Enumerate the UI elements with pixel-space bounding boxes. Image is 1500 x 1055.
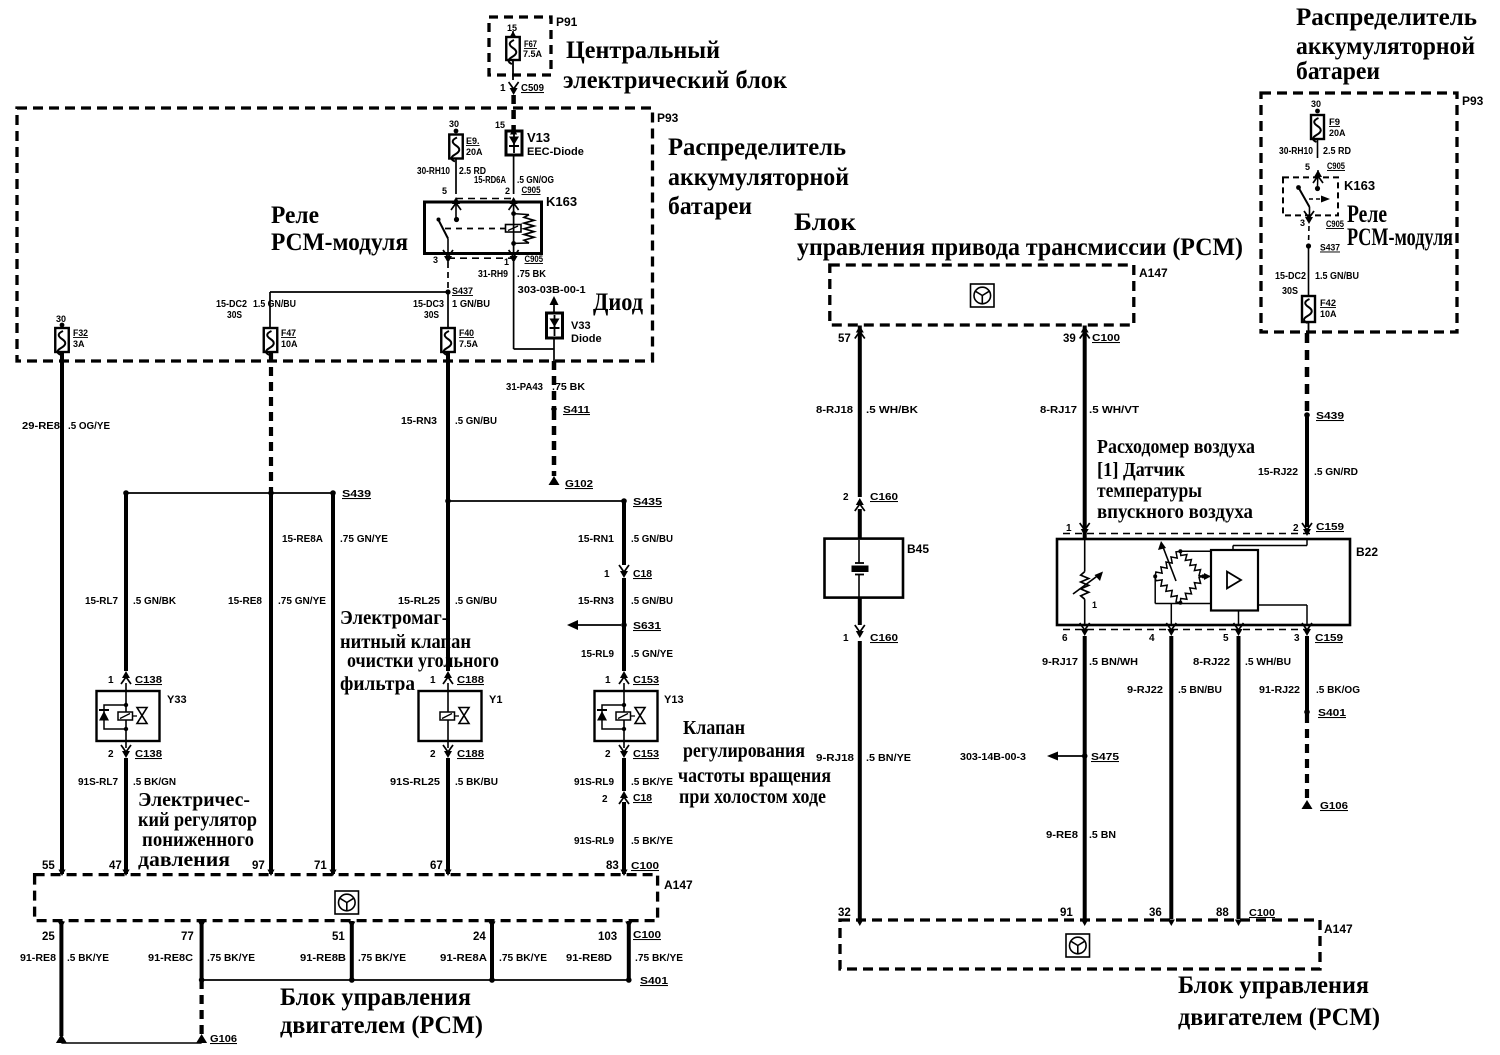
wire label 15-DC3 30S 1 GN/BU xyxy=(413,299,490,321)
splice S437 (right) xyxy=(1306,243,1340,254)
svg-text:G106: G106 xyxy=(210,1033,237,1045)
wire 91S-RL7 (Y33 to pin47) xyxy=(78,758,176,874)
wire F42 to S439 (thick dashed) xyxy=(1305,333,1310,413)
B22 wire amp to pin3 xyxy=(1258,605,1307,625)
pin 57 connector xyxy=(838,326,865,346)
svg-text:фильтра: фильтра xyxy=(340,673,415,695)
fuse F67 7.5A xyxy=(506,37,542,64)
svg-text:.75 BK: .75 BK xyxy=(517,269,547,280)
pin 83 connector C100 xyxy=(606,860,659,876)
relay switch blade xyxy=(437,218,449,239)
svg-text:Расходомер воздуха: Расходомер воздуха xyxy=(1097,436,1255,458)
fuse F40 7.5A xyxy=(441,328,478,355)
relay K163 (left) box xyxy=(425,194,578,254)
svg-text:P93: P93 xyxy=(1462,94,1484,108)
splice S439 line xyxy=(123,488,371,500)
svg-text:30: 30 xyxy=(449,119,459,129)
svg-text:S435: S435 xyxy=(633,496,662,508)
B22 wire bridge top to amp xyxy=(1180,550,1211,552)
reference 303-03B-00-1 xyxy=(518,285,586,296)
svg-text:30-RH10: 30-RH10 xyxy=(417,166,450,177)
svg-text:67: 67 xyxy=(430,860,443,872)
svg-text:B22: B22 xyxy=(1356,545,1378,559)
pin 55 xyxy=(42,860,66,876)
pin 1 (B22) xyxy=(1066,523,1090,536)
pin 4 connector xyxy=(1149,623,1176,644)
splice S401 (right) xyxy=(1304,707,1346,719)
svg-text:15-RL25: 15-RL25 xyxy=(398,596,440,607)
ground G106 (left) xyxy=(56,1033,237,1045)
svg-text:.5 WH/BK: .5 WH/BK xyxy=(866,405,919,416)
wire F67 to C509 xyxy=(512,60,514,80)
B22 bridge (bottom-left edge) xyxy=(1155,576,1180,602)
svg-text:C905: C905 xyxy=(1327,161,1346,172)
svg-text:.5 GN/BU: .5 GN/BU xyxy=(455,596,497,607)
svg-text:F67: F67 xyxy=(524,39,537,49)
wire to F47 xyxy=(269,292,271,328)
svg-text:S439: S439 xyxy=(342,488,371,500)
pin 25 xyxy=(42,922,65,944)
wire 15-RJ22 (S439 to C159) xyxy=(1258,415,1358,527)
wire B45 to C160 lower xyxy=(858,598,862,625)
svg-text:.5 BN/YE: .5 BN/YE xyxy=(866,753,911,764)
wire pin2-pin1 through relay xyxy=(513,202,515,253)
svg-text:88: 88 xyxy=(1216,907,1229,919)
relay coil xyxy=(511,211,534,246)
svg-text:1 GN/BU: 1 GN/BU xyxy=(452,299,490,310)
svg-text:.75 BK/YE: .75 BK/YE xyxy=(207,953,255,964)
svg-text:91-RE8: 91-RE8 xyxy=(20,953,56,964)
svg-text:Электромаг-: Электромаг- xyxy=(340,607,448,629)
pin 5 connector xyxy=(442,186,461,210)
svg-text:1: 1 xyxy=(108,675,114,686)
svg-text:30S: 30S xyxy=(1282,286,1298,297)
svg-text:29-RE8: 29-RE8 xyxy=(22,421,60,432)
wire E9 to relay pin5 xyxy=(455,159,457,195)
PCM module A147 (left) box xyxy=(35,875,693,921)
svg-text:36: 36 xyxy=(1149,907,1162,919)
pin 51 xyxy=(332,922,355,944)
svg-text:Распределитель: Распределитель xyxy=(1296,4,1477,31)
relay blade to pin3 xyxy=(447,239,449,254)
node 30 (E9 pin) xyxy=(449,119,459,133)
svg-text:A147: A147 xyxy=(1139,266,1168,280)
svg-text:8-RJ17: 8-RJ17 xyxy=(1040,405,1077,416)
svg-text:A147: A147 xyxy=(1324,922,1353,936)
svg-text:91-RE8D: 91-RE8D xyxy=(566,953,612,964)
svg-text:.5 BN/WH: .5 BN/WH xyxy=(1089,657,1138,668)
wire V33 to S411 (thick dashed) xyxy=(506,361,586,407)
svg-text:5: 5 xyxy=(442,186,447,196)
node 15 (P91 fuse pin) xyxy=(507,23,517,33)
title: battery distributor (left) xyxy=(668,134,849,220)
svg-text:15-RJ22: 15-RJ22 xyxy=(1258,467,1298,478)
svg-text:.75 BK: .75 BK xyxy=(552,382,586,393)
svg-text:57: 57 xyxy=(838,333,851,345)
svg-text:РСМ-модуля: РСМ-модуля xyxy=(271,229,408,256)
svg-text:S437: S437 xyxy=(1320,243,1340,254)
node 30 (F9 pin) xyxy=(1311,99,1321,113)
svg-text:77: 77 xyxy=(181,931,194,943)
svg-text:15-DC3: 15-DC3 xyxy=(413,299,444,310)
svg-text:51: 51 xyxy=(332,931,345,943)
svg-text:91-RE8A: 91-RE8A xyxy=(440,953,487,964)
svg-text:C153: C153 xyxy=(633,674,659,686)
connector C153 pin1 xyxy=(605,671,659,692)
wire label 15-DC2 30S 1.5 GN/BU xyxy=(216,299,296,321)
wire 15-RL9 (S631 to Y13) xyxy=(581,625,673,671)
svg-text:.5 BK/BU: .5 BK/BU xyxy=(455,777,498,788)
fuse F9 20A xyxy=(1311,115,1346,142)
wire 15-RL7 (S439 to Y33) xyxy=(85,493,177,671)
svg-text:C159: C159 xyxy=(1315,632,1343,644)
svg-text:2: 2 xyxy=(108,749,114,760)
wire label 30-RH10 2.5 RD xyxy=(417,166,486,177)
svg-text:2.5 RD: 2.5 RD xyxy=(1323,146,1351,157)
svg-text:32: 32 xyxy=(838,907,851,919)
svg-text:30: 30 xyxy=(56,314,66,324)
title: Diode xyxy=(593,289,643,316)
svg-text:.5 BK/YE: .5 BK/YE xyxy=(631,836,673,847)
pin 32 xyxy=(838,907,863,926)
svg-text:1: 1 xyxy=(605,675,611,686)
title: Central electric block xyxy=(563,37,788,94)
relay K163 (right) box xyxy=(1283,177,1375,215)
svg-text:F47: F47 xyxy=(281,328,296,338)
splice S439 (right) xyxy=(1304,410,1344,422)
svg-text:3: 3 xyxy=(1300,218,1305,228)
svg-text:103: 103 xyxy=(598,931,617,943)
PCM icon (bottom right) xyxy=(1066,934,1090,957)
svg-text:S401: S401 xyxy=(640,975,668,987)
svg-text:батареи: батареи xyxy=(668,193,752,220)
title: canister purge solenoid xyxy=(340,607,499,695)
svg-text:1: 1 xyxy=(843,633,849,644)
svg-text:аккумуляторной: аккумуляторной xyxy=(668,164,849,191)
svg-text:C905: C905 xyxy=(525,254,544,265)
svg-text:C160: C160 xyxy=(870,491,898,503)
B22 wire pin1 to varistor xyxy=(1084,539,1086,572)
B22 wire varistor to pin6 xyxy=(1084,599,1086,625)
svg-text:8-RJ18: 8-RJ18 xyxy=(816,405,853,416)
wire label 15-DC2 1.5 GN/BU (right) xyxy=(1275,271,1359,297)
svg-text:30S: 30S xyxy=(424,310,439,321)
svg-text:C100: C100 xyxy=(1092,332,1120,344)
pin 67 xyxy=(430,860,452,876)
svg-text:F40: F40 xyxy=(459,328,474,338)
svg-text:2: 2 xyxy=(430,749,436,760)
connector C509 xyxy=(500,82,544,95)
svg-text:.5 BN/BU: .5 BN/BU xyxy=(1178,685,1222,696)
svg-text:15-RL7: 15-RL7 xyxy=(85,596,118,607)
connector C905 pin3 (right) xyxy=(1300,211,1345,230)
label 15 (V13 pin) xyxy=(495,120,505,130)
pin 71 xyxy=(314,860,337,876)
svg-text:C160: C160 xyxy=(870,632,898,644)
fuse F32 3A xyxy=(55,328,88,355)
svg-text:15-DC2: 15-DC2 xyxy=(1275,271,1306,282)
pin 47 xyxy=(109,860,130,876)
pin 97 xyxy=(252,860,275,876)
svg-text:9-RJ22: 9-RJ22 xyxy=(1127,685,1163,696)
wire label 31-RH9 .75 BK xyxy=(478,269,547,280)
wire 91S-RL9 above C18 xyxy=(574,758,673,791)
svg-text:15-RE8: 15-RE8 xyxy=(228,596,262,607)
svg-text:РСМ-модуля: РСМ-модуля xyxy=(1347,224,1453,251)
wire 91-RJ22 (pin3 to S401) xyxy=(1259,636,1360,711)
PCM icon (left) xyxy=(335,891,359,914)
connector C153 pin2 xyxy=(605,740,659,760)
svg-text:15-RE8A: 15-RE8A xyxy=(282,534,323,545)
svg-text:15-DC2: 15-DC2 xyxy=(216,299,247,310)
svg-text:1.5 GN/BU: 1.5 GN/BU xyxy=(1315,271,1359,282)
connector C18 (upper) xyxy=(604,565,652,580)
relay contact dot xyxy=(454,217,459,222)
svg-text:при холостом ходе: при холостом ходе xyxy=(679,786,826,808)
pin 39 connector C100 xyxy=(1063,326,1120,346)
wire F47 to S439 (thick dashed) xyxy=(269,352,273,493)
B22 bridge (bottom-right edge) xyxy=(1180,576,1203,602)
wire relay pin1 to V33 xyxy=(514,262,554,349)
svg-text:5: 5 xyxy=(1305,162,1310,172)
svg-text:F42: F42 xyxy=(1320,298,1336,308)
svg-text:47: 47 xyxy=(109,860,122,872)
diode V33 xyxy=(547,313,602,345)
svg-text:.5 BK/YE: .5 BK/YE xyxy=(631,777,673,788)
wire 29-RE8 (F32 to pin55) xyxy=(22,352,110,874)
svg-text:очистки угольного: очистки угольного xyxy=(347,650,499,672)
svg-text:[1] Датчик: [1] Датчик xyxy=(1097,459,1185,481)
wire 9-RJ18 (C160 to pin32) xyxy=(816,641,911,919)
B22 wire pin2 to amp top xyxy=(1233,539,1307,550)
svg-text:P93: P93 xyxy=(657,111,679,125)
svg-text:Y1: Y1 xyxy=(489,694,502,706)
svg-text:C188: C188 xyxy=(457,674,484,686)
relay coil core xyxy=(506,225,522,233)
svg-text:.5 BK/GN: .5 BK/GN xyxy=(133,777,176,788)
wire S401 to G106 (thick dashed) xyxy=(200,980,204,1034)
node 30 (F32 pin) xyxy=(56,314,66,327)
svg-text:Центральный: Центральный xyxy=(566,37,720,64)
B22 wire bridge left to bottom link xyxy=(1155,576,1211,603)
svg-text:1.5 GN/BU: 1.5 GN/BU xyxy=(253,299,296,310)
svg-text:30: 30 xyxy=(1311,99,1321,109)
wire 9-RJ17 (pin6 down) xyxy=(1042,636,1138,919)
svg-text:S475: S475 xyxy=(1091,751,1119,763)
svg-text:.75 BK/YE: .75 BK/YE xyxy=(499,953,547,964)
svg-text:9-RJ17: 9-RJ17 xyxy=(1042,657,1078,668)
pin 88 connector C100 xyxy=(1216,907,1275,926)
connector line C159 bottom xyxy=(1063,629,1311,631)
pin 103 connector C100 xyxy=(598,922,661,944)
svg-text:15-RN3: 15-RN3 xyxy=(401,416,437,427)
relay dashed arrow (right) xyxy=(1309,196,1330,203)
B22 bridge (top-right edge) xyxy=(1180,551,1203,576)
title: idle speed control valve xyxy=(678,717,831,808)
svg-text:6: 6 xyxy=(1062,633,1068,644)
svg-text:15-RN1: 15-RN1 xyxy=(578,534,614,545)
B45 sensor element xyxy=(852,540,869,597)
svg-text:C159: C159 xyxy=(1316,521,1344,533)
PCM icon (top right) xyxy=(971,284,995,307)
svg-text:91S-RL9: 91S-RL9 xyxy=(574,836,614,847)
svg-text:.5 GN/BK: .5 GN/BK xyxy=(133,596,177,607)
B22 wire bridge to amp xyxy=(1203,573,1211,580)
title: battery distributor (right) xyxy=(1296,4,1477,85)
connector line C159 top xyxy=(1063,533,1311,535)
svg-text:C905: C905 xyxy=(522,185,542,196)
wire V33 to box edge xyxy=(553,349,555,361)
wire S411 to G102 xyxy=(552,411,557,476)
pin 3 connector xyxy=(433,250,453,265)
svg-text:A147: A147 xyxy=(664,878,693,892)
svg-text:управления привода трансмиссии: управления привода трансмиссии (РСМ) xyxy=(797,234,1243,261)
svg-text:Блок: Блок xyxy=(794,209,857,236)
svg-text:EEC-Diode: EEC-Diode xyxy=(527,146,584,158)
title: engine control block PCM (left) xyxy=(280,984,483,1039)
svg-text:K163: K163 xyxy=(1344,178,1375,193)
svg-text:20A: 20A xyxy=(1329,128,1346,138)
wire 8-RJ22 (pin5 to pin88) xyxy=(1193,636,1291,919)
svg-text:15-RN3: 15-RN3 xyxy=(578,596,614,607)
svg-text:31-PA43: 31-PA43 xyxy=(506,382,543,393)
svg-text:C18: C18 xyxy=(633,568,652,580)
svg-text:15: 15 xyxy=(507,23,517,33)
arrow to 303-03B-00-1 xyxy=(550,296,559,313)
fuse F47 10A xyxy=(264,328,298,355)
PCM module A147 (top right) box xyxy=(830,265,1168,325)
svg-text:3: 3 xyxy=(1294,633,1300,644)
svg-text:39: 39 xyxy=(1063,333,1076,345)
svg-text:2: 2 xyxy=(505,186,510,196)
svg-text:S439: S439 xyxy=(1316,410,1344,422)
svg-text:впускного воздуха: впускного воздуха xyxy=(1097,501,1253,523)
connector C18 (lower) xyxy=(602,791,652,805)
svg-text:F9: F9 xyxy=(1329,117,1340,127)
wire relay pin3 to S437 (dashed) xyxy=(447,262,449,292)
wire C160 to B45 xyxy=(858,509,862,539)
svg-text:4: 4 xyxy=(1149,633,1155,644)
svg-text:Y13: Y13 xyxy=(664,694,684,706)
svg-text:G106: G106 xyxy=(1320,800,1348,812)
svg-text:7.5A: 7.5A xyxy=(459,339,479,349)
wire pin3 to S437 (right) xyxy=(1308,226,1311,244)
svg-text:55: 55 xyxy=(42,860,55,872)
svg-text:C100: C100 xyxy=(633,929,661,941)
wire 8-RJ17 (pin39 to B22) xyxy=(1040,326,1139,539)
svg-text:аккумуляторной: аккумуляторной xyxy=(1296,33,1475,60)
wire 91-RE8 (pin25 to G106) xyxy=(20,921,109,1036)
svg-text:3A: 3A xyxy=(73,339,85,349)
relay actuation dashed link xyxy=(445,228,505,230)
svg-text:2: 2 xyxy=(602,794,608,805)
pin 2 connector C159 (top) xyxy=(1293,521,1344,536)
svg-text:7.5A: 7.5A xyxy=(523,49,543,59)
wire label 9-RE8 .5 BN xyxy=(1046,830,1116,841)
svg-text:1: 1 xyxy=(1066,523,1072,534)
ground G102 xyxy=(549,476,594,490)
svg-text:30S: 30S xyxy=(227,310,242,321)
svg-text:C100: C100 xyxy=(1249,907,1275,919)
power distribution box P91 xyxy=(489,15,578,75)
svg-text:F32: F32 xyxy=(73,328,88,338)
svg-text:.5 WH/BU: .5 WH/BU xyxy=(1245,657,1291,668)
reference 303-14B-00-3 arrow xyxy=(960,752,1082,764)
battery distribution box P93 (right) xyxy=(1261,93,1484,332)
pin 6 connector xyxy=(1062,623,1090,644)
wire label 30-RH10 2.5 RD (right) xyxy=(1279,146,1351,157)
svg-text:.5 GN/BU: .5 GN/BU xyxy=(455,416,497,427)
fuse F42 10A xyxy=(1302,296,1337,323)
svg-text:91-RE8C: 91-RE8C xyxy=(148,953,193,964)
wire F42 to box edge xyxy=(1308,322,1310,333)
B22 bridge (top-left edge) xyxy=(1155,551,1180,576)
wire 15-RE8 (S439 to pin97) xyxy=(228,493,326,874)
diode V13 EEC-Diode xyxy=(506,128,584,158)
svg-text:8-RJ22: 8-RJ22 xyxy=(1193,657,1230,668)
title: PCM relay (right) xyxy=(1347,201,1453,251)
splice S411 xyxy=(551,404,590,416)
wire 15-RN3 (C18 to S631) xyxy=(578,578,673,625)
connector C905 pin5 (right) xyxy=(1305,161,1346,183)
connector C160 (lower) xyxy=(843,625,898,644)
title: transmission drive control block PCM xyxy=(794,209,1243,261)
svg-text:.75 BK/YE: .75 BK/YE xyxy=(358,953,406,964)
svg-text:кий регулятор: кий регулятор xyxy=(138,809,257,831)
svg-text:15-RD6A: 15-RD6A xyxy=(474,175,506,186)
svg-text:S401: S401 xyxy=(1318,707,1346,719)
B22 wire amp to pin5 xyxy=(1238,611,1240,626)
svg-text:C100: C100 xyxy=(631,860,659,872)
svg-text:пониженного: пониженного xyxy=(142,829,254,851)
svg-text:частоты вращения: частоты вращения xyxy=(678,765,831,787)
fuse E9 20A xyxy=(449,135,483,162)
svg-text:91: 91 xyxy=(1060,907,1073,919)
svg-text:1: 1 xyxy=(1092,600,1097,610)
battery distribution box P93 (left) xyxy=(17,108,679,361)
mass air flow sensor B22 box xyxy=(1057,539,1378,625)
svg-text:Блок управления: Блок управления xyxy=(1178,972,1369,999)
PCM module A147 (bottom right) box xyxy=(840,920,1353,969)
svg-text:C153: C153 xyxy=(633,748,659,760)
wire F40 to S435 xyxy=(401,352,497,501)
B22 bridge arrow xyxy=(1158,541,1176,581)
svg-text:батареи: батареи xyxy=(1296,58,1380,85)
svg-text:30-RH10: 30-RH10 xyxy=(1279,146,1313,157)
wire 91-RE8D (pin103 to S401) xyxy=(566,921,683,980)
wire pin5 into relay xyxy=(455,203,457,218)
pin 91 xyxy=(1060,907,1088,926)
svg-text:.5 GN/RD: .5 GN/RD xyxy=(1314,467,1358,478)
svg-text:.75 BK/YE: .75 BK/YE xyxy=(635,953,683,964)
svg-text:V33: V33 xyxy=(571,320,591,332)
title: engine control block PCM (right) xyxy=(1178,972,1380,1031)
solenoid valve Y33 xyxy=(97,691,187,741)
svg-text:10A: 10A xyxy=(281,339,298,349)
connector C188 pin1 xyxy=(430,671,484,692)
connector line C905 top xyxy=(456,198,514,200)
svg-text:25: 25 xyxy=(42,931,55,943)
svg-text:.5 OG/YE: .5 OG/YE xyxy=(68,421,110,432)
svg-text:температуры: температуры xyxy=(1097,480,1202,502)
pin 5 connector xyxy=(1223,623,1244,644)
svg-text:3: 3 xyxy=(433,255,438,265)
pin 1 connector C905 xyxy=(504,250,544,267)
svg-text:.5 GN/YE: .5 GN/YE xyxy=(631,649,673,660)
svg-text:Диод: Диод xyxy=(593,289,643,316)
svg-text:двигателем (РСМ): двигателем (РСМ) xyxy=(1178,1004,1380,1031)
wire S437 to F47 (horizontal) xyxy=(270,291,448,293)
